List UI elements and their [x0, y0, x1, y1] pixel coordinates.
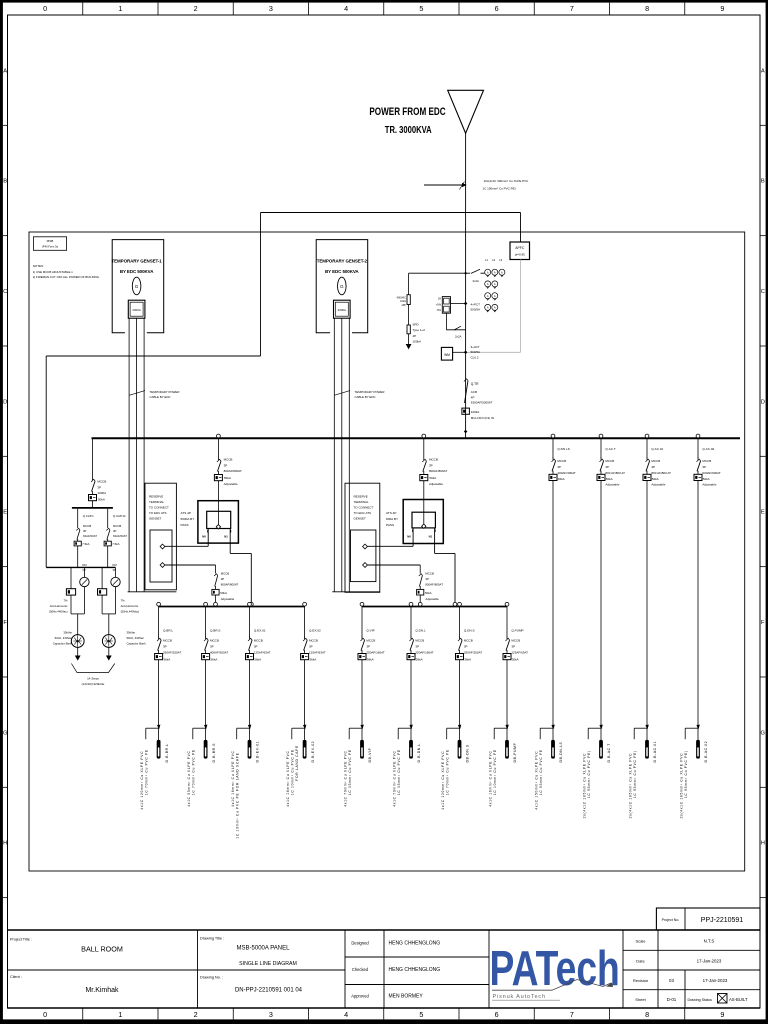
svg-text:MCCB: MCCB: [309, 639, 318, 643]
client cell: [10, 975, 119, 994]
breaker Q.TR ACB: [462, 379, 494, 434]
svg-text:100kA: 100kA: [413, 340, 422, 344]
svg-text:TO CONNECT: TO CONNECT: [354, 506, 374, 510]
svg-text:4x1C 95mm² Cu XLPE PVC: 4x1C 95mm² Cu XLPE PVC: [187, 750, 191, 806]
svg-text:MCCB: MCCB: [163, 639, 172, 643]
svg-text:1C 35mm² Cu PVC PE: 1C 35mm² Cu PVC PE: [348, 749, 352, 795]
svg-text:SPD: SPD: [413, 323, 420, 327]
svg-text:Approved: Approved: [351, 994, 369, 999]
svg-text:Q.BR.L: Q.BR.L: [163, 629, 173, 633]
svg-text:3P: 3P: [702, 465, 706, 469]
svg-text:AS-BUILT: AS-BUILT: [729, 997, 748, 1002]
svg-text:NOTES:: NOTES:: [33, 264, 44, 268]
svg-text:10x(4x1C 300mm² Cu XLPE PVC: 10x(4x1C 300mm² Cu XLPE PVC: [484, 179, 530, 183]
svg-text:D.B-BR.L: D.B-BR.L: [165, 743, 169, 762]
incoming terminal 2 box: [345, 483, 380, 592]
KM bus: [46, 566, 115, 568]
ATS 2 switch: [403, 500, 443, 554]
svg-text:N1: N1: [224, 535, 228, 539]
svg-text:50kA: 50kA: [98, 497, 105, 501]
svg-text:3P: 3P: [429, 463, 433, 467]
svg-text:MCCB: MCCB: [83, 524, 91, 528]
generator GENSET-2 box: [316, 240, 368, 333]
svg-text:CABLE BY EDC: CABLE BY EDC: [355, 395, 376, 399]
svg-text:MCCB: MCCB: [113, 524, 121, 528]
svg-text:5000A BY: 5000A BY: [181, 517, 195, 521]
svg-text:3P: 3P: [163, 645, 167, 649]
svg-text:50kA: 50kA: [429, 476, 436, 480]
svg-text:Q.AC.T: Q.AC.T: [605, 447, 615, 451]
svg-text:Project Title :: Project Title :: [10, 938, 32, 942]
svg-text:G: G: [3, 730, 8, 736]
svg-text:MCCB: MCCB: [605, 459, 614, 463]
svg-text:Q.DN.LS: Q.DN.LS: [557, 447, 569, 451]
ATS 1 label: [181, 511, 195, 527]
svg-text:1C 10mm² Cu PVC PE: 1C 10mm² Cu PVC PE: [291, 749, 295, 795]
svg-text:125AF/63AT: 125AF/63AT: [254, 651, 271, 655]
svg-text:2x2A: 2x2A: [455, 334, 462, 338]
steps brace: [71, 664, 114, 687]
switch 2x2A meter: [471, 269, 480, 283]
wire terminal1 to ATS1: [165, 545, 208, 547]
svg-text:A: A: [494, 282, 496, 286]
node ATS2 output junction: [453, 602, 457, 606]
svg-text:Q.DN.S: Q.DN.S: [464, 629, 475, 633]
svg-text:DN-PPJ-2210591 001 04: DN-PPJ-2210591 001 04: [235, 988, 303, 994]
svg-text:A: A: [487, 270, 489, 274]
svg-text:GENSET: GENSET: [354, 517, 367, 521]
drawing title cell: [200, 937, 297, 967]
svg-text:HENG CHHENGLONG: HENG CHHENGLONG: [389, 967, 441, 973]
terminal 2 node B: [363, 563, 368, 568]
breaker Q.AC.02: [694, 434, 721, 728]
svg-text:D.B-AC.01: D.B-AC.01: [653, 741, 657, 763]
breaker MCCB terminal2 feeder: [367, 565, 443, 607]
svg-text:D.B-DN.L: D.B-DN.L: [417, 743, 421, 762]
svg-text:Project No.: Project No.: [662, 918, 680, 922]
wire genset tie horizontal y356: [46, 356, 260, 567]
incoming terminal 1 box: [145, 483, 176, 590]
svg-text:A: A: [487, 282, 489, 286]
svg-text:A: A: [501, 270, 503, 274]
svg-text:3P: 3P: [83, 529, 87, 533]
svg-text:D: D: [3, 399, 7, 405]
svg-text:2x2A: 2x2A: [473, 279, 480, 283]
svg-text:800 AF/800 AT: 800 AF/800 AT: [651, 471, 671, 475]
feeder termination D.B-EX-02: [286, 725, 315, 807]
MSB enclosure box: [29, 232, 745, 871]
capacitor bank label 1: [53, 631, 73, 646]
svg-text:3: 3: [269, 4, 273, 13]
cable tick genset2: [335, 390, 385, 399]
notes text: [33, 264, 100, 279]
terminal 2 node A: [363, 544, 368, 549]
breaker Q.DN.LS: [549, 434, 576, 728]
SPD branch: [397, 273, 426, 349]
svg-text:2A: 2A: [438, 297, 441, 301]
svg-text:MCCB: MCCB: [97, 480, 106, 484]
svg-text:Q.AC.02: Q.AC.02: [702, 447, 714, 451]
svg-text:Adjustable: Adjustable: [221, 597, 235, 601]
svg-text:2x(4x1C 185mm² Cu XLPE PVC: 2x(4x1C 185mm² Cu XLPE PVC: [628, 753, 632, 819]
node 3+4CT: [464, 345, 480, 360]
switch 2x2A PT: [446, 313, 465, 338]
wire EDC incomer vertical: [465, 133, 467, 438]
svg-text:HENG CHHENGLONG: HENG CHHENGLONG: [389, 941, 441, 947]
svg-text:B: B: [3, 179, 7, 185]
svg-text:630AF/600AT: 630AF/600AT: [702, 471, 720, 475]
svg-text:1C 10mm² Cu PVC PE: 1C 10mm² Cu PVC PE: [493, 749, 497, 795]
svg-text:DB-DN.S: DB-DN.S: [466, 744, 470, 762]
svg-text:A: A: [3, 68, 7, 74]
svg-text:MEN BORMEY: MEN BORMEY: [389, 994, 424, 1000]
svg-text:D: D: [761, 399, 765, 405]
svg-text:50Hz, 440Vac: 50Hz, 440Vac: [55, 636, 73, 640]
svg-text:D.B-AC.T: D.B-AC.T: [607, 743, 611, 763]
svg-text:L1: L1: [485, 258, 488, 262]
svg-text:Q.AC.01: Q.AC.01: [651, 447, 663, 451]
svg-text:A: A: [494, 270, 496, 274]
svg-text:3P: 3P: [425, 577, 429, 581]
wire genset1 cables: [129, 318, 144, 592]
svg-text:Scale: Scale: [635, 939, 646, 944]
date row: [636, 959, 722, 964]
svg-text:Q.TR: Q.TR: [471, 382, 479, 386]
svg-text:DB-VIP: DB-VIP: [368, 747, 372, 762]
svg-text:250AF/200AT: 250AF/200AT: [464, 651, 482, 655]
svg-text:250AF/160AT: 250AF/160AT: [415, 651, 433, 655]
svg-text:TEMPORARY POWER: TEMPORARY POWER: [150, 390, 180, 394]
svg-text:Client :: Client :: [10, 975, 22, 979]
svg-text:1C 10mm² Cu PVC PE FOR LAND SC: 1C 10mm² Cu PVC PE FOR LAND SCAPE: [236, 752, 240, 838]
svg-text:Capacitor Bank: Capacitor Bank: [127, 642, 147, 646]
svg-text:Pisnuk AutoTech: Pisnuk AutoTech: [493, 994, 546, 1000]
svg-text:125AF/63AT: 125AF/63AT: [309, 651, 326, 655]
svg-text:36kA: 36kA: [210, 657, 217, 661]
svg-text:4x1C 120mm² Cu XLPE PVC: 4x1C 120mm² Cu XLPE PVC: [441, 751, 445, 810]
transformer delta symbol: [448, 90, 484, 133]
meter bank rows: [485, 281, 498, 312]
svg-text:3P: 3P: [254, 645, 258, 649]
capacitor bus: [72, 507, 113, 509]
breaker Q.EX.02: [301, 602, 326, 728]
svg-text:PPJ-2210591: PPJ-2210591: [701, 917, 744, 924]
svg-text:1C 70mm² Cu PVC PE: 1C 70mm² Cu PVC PE: [192, 749, 196, 795]
svg-text:36kA: 36kA: [367, 657, 374, 661]
breaker Q.PUMP: [503, 602, 528, 728]
wire genset2 cables: [334, 318, 349, 592]
approved row: [351, 994, 423, 1000]
title block: [8, 930, 761, 1008]
svg-text:3P: 3P: [221, 577, 225, 581]
svg-text:PATech: PATech: [490, 942, 620, 996]
svg-text:Sheet: Sheet: [635, 997, 646, 1002]
svg-text:4x1C 120mm² Cu XLPE PVC: 4x1C 120mm² Cu XLPE PVC: [140, 751, 144, 810]
svg-text:TEMPORARY POWER: TEMPORARY POWER: [355, 390, 385, 394]
node main bus ATS2 feeder: [422, 434, 426, 438]
svg-text:Q.CAP.14: Q.CAP.14: [113, 514, 126, 518]
svg-text:TO CONNECT: TO CONNECT: [149, 506, 169, 510]
svg-text:6: 6: [495, 1010, 499, 1019]
svg-text:3: 3: [269, 1010, 273, 1019]
svg-text:3P: 3P: [464, 645, 468, 649]
svg-text:F: F: [761, 620, 765, 626]
svg-text:A: A: [494, 306, 496, 310]
svg-text:36kA: 36kA: [558, 477, 565, 481]
svg-text:BALL ROOM: BALL ROOM: [81, 945, 123, 954]
breaker Q.DN.L: [407, 602, 434, 728]
svg-text:1C 150mm² Cu PVC PE): 1C 150mm² Cu PVC PE): [483, 187, 516, 191]
svg-text:3P: 3P: [557, 465, 561, 469]
svg-text:Q.EX.01: Q.EX.01: [254, 629, 266, 633]
breaker Q.AC.01: [643, 434, 671, 728]
svg-text:ATS 4P: ATS 4P: [386, 511, 396, 515]
svg-text:MCCB: MCCB: [366, 639, 375, 643]
svg-text:L3: L3: [499, 258, 502, 262]
svg-text:50kA: 50kA: [606, 477, 613, 481]
svg-text:(14x30)=420kVar: (14x30)=420kVar: [82, 682, 105, 686]
svg-text:CABLE BY EDC: CABLE BY EDC: [150, 395, 171, 399]
svg-text:4P: 4P: [413, 334, 417, 338]
feeder termination D.B-AC.02: [679, 725, 708, 819]
anti-harmonic label 1: [49, 599, 68, 614]
svg-text:4x1C 70mm² Cu XLPE PVC: 4x1C 70mm² Cu XLPE PVC: [343, 750, 347, 806]
svg-text:50kA: 50kA: [224, 476, 231, 480]
svg-text:125AF/63AT: 125AF/63AT: [511, 651, 528, 655]
svg-text:3P: 3P: [224, 463, 228, 467]
svg-text:GENSET: GENSET: [149, 517, 162, 521]
svg-text:50kA: 50kA: [425, 591, 432, 595]
node main bus ATS1 feeder: [217, 434, 221, 438]
drawing no cell: [200, 976, 303, 994]
svg-text:9: 9: [720, 1010, 724, 1019]
svg-text:C: C: [761, 289, 765, 295]
svg-text:TERMINAL: TERMINAL: [354, 500, 370, 504]
svg-text:36kA: 36kA: [464, 657, 471, 661]
svg-text:30kVar: 30kVar: [63, 631, 72, 635]
svg-text:3P: 3P: [97, 485, 101, 489]
svg-text:3P: 3P: [415, 645, 419, 649]
svg-text:N0: N0: [407, 535, 411, 539]
svg-text:50kA: 50kA: [220, 591, 227, 595]
svg-text:1C 95mm² Cu PVC PE): 1C 95mm² Cu PVC PE): [633, 750, 637, 798]
PATech logo: [490, 942, 620, 1000]
svg-text:17-Jan-2023: 17-Jan-2023: [697, 959, 722, 964]
svg-text:MCCB: MCCB: [425, 572, 434, 576]
svg-text:(50Hz,440Vac): (50Hz,440Vac): [49, 610, 68, 614]
PT fuse box: [436, 297, 466, 314]
breaker Q.BR.S: [202, 602, 229, 728]
svg-text:100kA: 100kA: [471, 410, 480, 414]
svg-text:FOR LAND CAPE: FOR LAND CAPE: [295, 745, 299, 781]
svg-text:D.B-BR.S: D.B-BR.S: [212, 743, 216, 763]
wire ATS1 output: [230, 553, 251, 604]
svg-text:N0: N0: [202, 535, 206, 539]
designed row: [351, 941, 440, 947]
wire terminal1 bottom: [128, 591, 177, 593]
svg-text:6300AF/5000AT: 6300AF/5000AT: [471, 401, 493, 405]
svg-text:8: 8: [645, 1010, 649, 1019]
svg-text:Capacitor Bank: Capacitor Bank: [53, 642, 73, 646]
svg-text:4x1C 70mm² Cu XLPE PVC: 4x1C 70mm² Cu XLPE PVC: [392, 750, 396, 806]
svg-text:Q.DN.L: Q.DN.L: [415, 629, 426, 633]
svg-text:36kA: 36kA: [254, 657, 261, 661]
svg-text:1) USE MCCB ADJUSTABLE n: 1) USE MCCB ADJUSTABLE n: [33, 270, 73, 274]
svg-text:63AF/63AT: 63AF/63AT: [83, 534, 97, 538]
svg-text:10kA: 10kA: [400, 299, 406, 303]
svg-text:MCCB: MCCB: [464, 639, 473, 643]
wire meter feed y273: [409, 272, 485, 275]
svg-text:Q.EX.02: Q.EX.02: [309, 629, 321, 633]
svg-text:H: H: [761, 841, 765, 847]
breaker MCCB ATS2 feeder: [420, 438, 448, 512]
svg-text:Drawing Title :: Drawing Title :: [200, 937, 224, 941]
svg-text:50kA: 50kA: [703, 477, 710, 481]
svg-text:1: 1: [118, 1010, 122, 1019]
svg-text:E: E: [761, 510, 765, 516]
svg-text:0: 0: [43, 4, 47, 13]
svg-text:(P40 Form 3a: (P40 Form 3a: [42, 245, 58, 249]
svg-text:Adjustable: Adjustable: [702, 483, 716, 487]
svg-text:Date: Date: [636, 959, 645, 964]
power source label: [369, 106, 445, 135]
svg-text:2) FIREMAN CUT OFF ALL POWER O: 2) FIREMAN CUT OFF ALL POWER OF BUILDING: [33, 275, 100, 279]
svg-text:4x1C 150mm² Cu XLPE PVC: 4x1C 150mm² Cu XLPE PVC: [534, 751, 538, 810]
capacitor bank label 2: [127, 631, 147, 646]
svg-text:3+4CT: 3+4CT: [471, 345, 480, 349]
svg-text:SINGLE LINE DIAGRAM: SINGLE LINE DIAGRAM: [239, 961, 297, 967]
feeder termination D.B-EX-01: [231, 725, 260, 839]
svg-text:63AF/63AT: 63AF/63AT: [113, 534, 127, 538]
svg-text:1C 95mm² Cu PVC PE): 1C 95mm² Cu PVC PE): [684, 750, 688, 798]
svg-text:Q.CAP.1: Q.CAP.1: [83, 514, 94, 518]
contactor and reactor group 2: [98, 563, 121, 661]
svg-text:Adjustable: Adjustable: [605, 483, 619, 487]
svg-text:Adjustable: Adjustable: [429, 482, 443, 486]
svg-text:800A BY: 800A BY: [386, 517, 398, 521]
svg-text:BY EDC 500KVA: BY EDC 500KVA: [325, 269, 359, 274]
svg-text:Anti-Harmonic: Anti-Harmonic: [50, 604, 68, 608]
sub bus left: [159, 606, 305, 608]
svg-text:-5%: -5%: [436, 308, 441, 312]
terminal 1 node B: [160, 563, 165, 568]
svg-text:G: G: [761, 730, 766, 736]
svg-text:Checked: Checked: [352, 967, 369, 972]
svg-text:7%: 7%: [121, 599, 126, 603]
scale row: [635, 939, 714, 944]
svg-text:4x1C 16mm² Cu XLPE PVC: 4x1C 16mm² Cu XLPE PVC: [286, 750, 290, 806]
anti-harmonic label 2: [121, 599, 140, 614]
svg-text:50kA: 50kA: [652, 477, 659, 481]
svg-text:Adjustable: Adjustable: [651, 483, 665, 487]
main bus: [92, 437, 741, 439]
svg-text:2: 2: [194, 1010, 198, 1019]
svg-text:4: 4: [344, 1010, 348, 1019]
svg-text:ATS 4P: ATS 4P: [181, 511, 191, 515]
svg-text:CL0.2: CL0.2: [471, 355, 479, 359]
svg-text:800AF/800AT: 800AF/800AT: [425, 583, 443, 587]
feeder termination D.B-AC.01: [628, 725, 657, 819]
svg-text:14 Steps: 14 Steps: [87, 677, 99, 681]
svg-text:3P: 3P: [366, 645, 370, 649]
breaker Q.EX.01: [246, 602, 271, 728]
svg-text:800AF/800AT: 800AF/800AT: [224, 469, 242, 473]
svg-text:Q.BR.S: Q.BR.S: [210, 629, 221, 633]
svg-text:A: A: [487, 294, 489, 298]
svg-text:E: E: [3, 510, 7, 516]
svg-text:4x1C 16mm² Cu XLPE PVC: 4x1C 16mm² Cu XLPE PVC: [231, 750, 235, 806]
svg-text:2000A: 2000A: [338, 308, 346, 312]
svg-text:3P: 3P: [605, 465, 609, 469]
svg-text:MCCB: MCCB: [415, 639, 424, 643]
cable tick genset1: [130, 390, 180, 399]
revision row: [633, 978, 728, 983]
svg-text:4x1C 16mm² Cu XLPE PVC: 4x1C 16mm² Cu XLPE PVC: [488, 750, 492, 806]
svg-text:800 AF/800 AT: 800 AF/800 AT: [605, 471, 625, 475]
contactor and reactor group 1: [66, 563, 89, 661]
svg-text:Drawing Status: Drawing Status: [688, 998, 713, 1002]
svg-text:3P: 3P: [210, 645, 214, 649]
svg-text:DB-DN-LS: DB-DN-LS: [559, 741, 563, 762]
wire tie line y212: [261, 213, 521, 357]
feeder termination DB-PUMP: [488, 725, 517, 807]
svg-text:D.B-EX-01: D.B-EX-01: [256, 741, 260, 763]
svg-text:WM: WM: [444, 353, 450, 357]
svg-text:250AF/250AT: 250AF/250AT: [163, 651, 181, 655]
svg-text:Anti-Harmonic: Anti-Harmonic: [121, 604, 139, 608]
svg-text:1Ph: 1Ph: [401, 303, 406, 307]
svg-text:500/5A: 500/5A: [471, 350, 481, 354]
wire terminal2 bottom: [332, 591, 380, 593]
svg-text:ACB: ACB: [471, 390, 477, 394]
svg-text:3P: 3P: [309, 645, 313, 649]
sheet row: [635, 994, 748, 1004]
svg-text:A: A: [761, 68, 765, 74]
svg-text:PASS: PASS: [181, 523, 189, 527]
meters L1 L2 L3: [485, 258, 505, 277]
node 4+PCT: [464, 302, 480, 312]
ATS 2 label: [386, 511, 398, 527]
svg-text:D.B-AC.02: D.B-AC.02: [704, 741, 708, 763]
svg-text:400AF/300AT: 400AF/300AT: [210, 651, 228, 655]
svg-text:17-Jan-2023: 17-Jan-2023: [703, 978, 728, 983]
APFC controller box: [510, 242, 530, 260]
svg-text:250AF/160AT: 250AF/160AT: [366, 651, 384, 655]
breaker Q.AC.T: [597, 434, 625, 728]
svg-text:MCCB: MCCB: [221, 572, 230, 576]
svg-text:Mr.Kimhak: Mr.Kimhak: [85, 987, 119, 994]
svg-text:pf=0.95: pf=0.95: [515, 253, 525, 257]
breaker Q.CAP.14: [104, 509, 127, 568]
svg-text:400AF/300AT: 400AF/300AT: [557, 471, 575, 475]
svg-text:MCH 6F3 (K3) IN: MCH 6F3 (K3) IN: [471, 416, 494, 420]
svg-text:5: 5: [419, 4, 423, 13]
node ATS1 feeder junction: [214, 602, 218, 606]
project no cell: [656, 908, 760, 930]
svg-text:POWER FROM EDC: POWER FROM EDC: [369, 106, 445, 119]
svg-text:TO EDC ATS: TO EDC ATS: [149, 511, 167, 515]
svg-text:0: 0: [43, 1010, 47, 1019]
svg-text:400VAC: 400VAC: [397, 295, 407, 299]
svg-text:TERMINAL: TERMINAL: [149, 500, 165, 504]
svg-text:MCCB: MCCB: [702, 459, 711, 463]
breaker MCCB capacitor feeder: [89, 438, 107, 508]
feeder termination DB-VIP: [343, 725, 372, 807]
svg-text:1: 1: [118, 4, 122, 13]
feeder termination D.B-DN.L: [392, 725, 421, 807]
svg-text:800AF/800AT: 800AF/800AT: [221, 583, 239, 587]
svg-text:TR. 3000KVA: TR. 3000KVA: [385, 124, 432, 135]
